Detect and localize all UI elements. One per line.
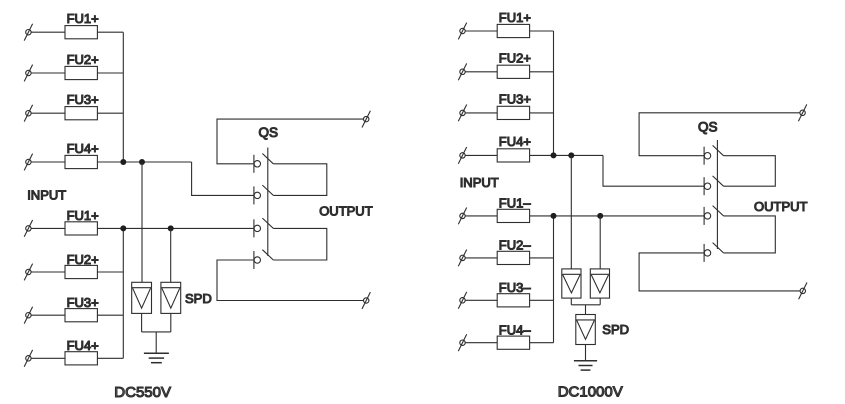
svg-text:FU3+: FU3+ xyxy=(67,92,99,107)
input terminal row 1 (right bottom group) xyxy=(458,208,466,225)
switch QS pole 4 (left) xyxy=(254,250,273,269)
junction - left SPD tap B xyxy=(168,225,174,231)
wire xyxy=(97,31,123,33)
wire - series link poles 1-2 xyxy=(724,156,776,187)
svg-text:FU3+: FU3+ xyxy=(67,295,99,310)
svg-text:FU1+: FU1+ xyxy=(67,208,99,223)
wire xyxy=(142,331,171,333)
svg-text:FU1+: FU1+ xyxy=(499,10,531,25)
output terminal - (left) xyxy=(362,292,370,309)
wire - pole4 to output- xyxy=(639,253,800,291)
wire xyxy=(465,257,497,259)
wire xyxy=(97,357,123,359)
svg-text:DC1000V: DC1000V xyxy=(558,383,623,400)
ground (right) xyxy=(574,361,597,370)
wire - right top bus xyxy=(553,31,555,155)
wire xyxy=(31,357,65,359)
wire xyxy=(585,345,587,361)
wire xyxy=(170,313,172,332)
SPD varistor 2 (right) xyxy=(590,269,609,298)
fuse FU3&#8211; (right bottom) xyxy=(497,294,529,307)
svg-text:FU4–: FU4– xyxy=(499,323,532,338)
wire xyxy=(570,298,572,305)
switch QS pole 2 (right) xyxy=(704,176,723,195)
junction - left SPD tap xyxy=(139,159,145,165)
wire xyxy=(97,112,123,114)
wire xyxy=(530,112,554,114)
fuse FU3+ (right top) xyxy=(497,106,529,119)
junction - left minus bus xyxy=(120,225,126,231)
wire - QS linkage bar xyxy=(267,148,269,257)
wire - to switch pole 2 xyxy=(603,155,704,186)
wire xyxy=(31,227,65,229)
wire xyxy=(97,72,123,74)
wire xyxy=(530,154,603,156)
wire xyxy=(97,161,191,163)
wire xyxy=(31,72,65,74)
svg-text:FU1–: FU1– xyxy=(499,196,532,211)
svg-text:OUTPUT: OUTPUT xyxy=(754,199,808,214)
svg-text:FU4+: FU4+ xyxy=(67,141,99,156)
input terminal row 1 (left top group) xyxy=(24,24,32,41)
fuse FU2&#8211; (right bottom) xyxy=(497,251,529,264)
junction - right plus bus xyxy=(551,152,557,158)
svg-text:FU2+: FU2+ xyxy=(67,52,99,67)
svg-text:FU4+: FU4+ xyxy=(67,338,99,353)
svg-text:INPUT: INPUT xyxy=(27,188,66,203)
wire xyxy=(97,271,123,273)
svg-text:FU2–: FU2– xyxy=(499,238,532,253)
SPD varistor 2 (left) xyxy=(161,282,181,313)
fuse FU4&#8211; (right bottom) xyxy=(497,336,529,349)
svg-text:FU2+: FU2+ xyxy=(67,252,99,267)
wire xyxy=(31,31,65,33)
input terminal row 4 (right bottom group) xyxy=(458,334,466,351)
input terminal row 3 (left top group) xyxy=(24,105,32,122)
wire xyxy=(530,299,554,301)
SPD varistor 1 (left) xyxy=(132,282,152,313)
input terminal row 2 (right top group) xyxy=(458,63,466,80)
output terminal + (right) xyxy=(798,104,806,121)
fuse FU2+ (right top) xyxy=(497,65,529,78)
wire xyxy=(465,342,497,344)
wire xyxy=(585,305,587,315)
input terminal row 2 (left bottom group) xyxy=(24,264,32,281)
ground (left) xyxy=(144,353,169,362)
fuse FU1&#8211; (right bottom) xyxy=(497,209,529,222)
input terminal row 3 (right top group) xyxy=(458,105,466,122)
input terminal row 1 (left bottom group) xyxy=(24,220,32,237)
wire xyxy=(599,298,601,305)
svg-text:FU2+: FU2+ xyxy=(499,51,531,66)
wire - pole1 feed from output+ xyxy=(639,113,800,156)
svg-text:DC550V: DC550V xyxy=(114,384,171,401)
output terminal + (left) xyxy=(362,111,370,128)
wire xyxy=(530,342,554,344)
svg-text:INPUT: INPUT xyxy=(460,175,499,190)
junction - right SPD tap xyxy=(568,152,574,158)
switch QS pole 1 (right) xyxy=(704,145,723,164)
wire - series link poles 3-4 xyxy=(724,216,776,253)
wire xyxy=(465,299,497,301)
SPD varistor 1 (right) xyxy=(562,269,581,298)
wire xyxy=(530,30,554,32)
fuse FU3+ (left top) xyxy=(65,107,97,120)
svg-text:QS: QS xyxy=(698,120,718,135)
wire xyxy=(97,314,123,316)
wire xyxy=(141,313,143,332)
input terminal row 3 (right bottom group) xyxy=(458,292,466,309)
switch QS pole 3 (left) xyxy=(254,218,273,237)
wire xyxy=(31,112,65,114)
output terminal - (right) xyxy=(799,283,807,300)
input terminal row 2 (right bottom group) xyxy=(458,250,466,267)
wire xyxy=(530,215,705,217)
input terminal row 4 (left bottom group) xyxy=(24,350,32,367)
wire xyxy=(465,215,497,217)
svg-text:SPD: SPD xyxy=(602,322,629,337)
input terminal row 1 (right top group) xyxy=(458,23,466,40)
wire - to switch pole 2 xyxy=(192,162,254,195)
wire - series link poles 1-2 xyxy=(273,164,327,196)
fuse FU4+ (left bottom) xyxy=(65,352,97,365)
wire - pole4 to output- xyxy=(217,260,363,301)
wire xyxy=(465,30,497,32)
switch QS pole 3 (right) xyxy=(704,206,723,225)
wire - left SPD column A xyxy=(141,162,143,282)
wire - right bottom bus xyxy=(553,216,555,343)
svg-text:FU1+: FU1+ xyxy=(67,11,99,26)
fuse FU4+ (right top) xyxy=(497,149,529,162)
fuse FU3+ (left bottom) xyxy=(65,309,97,322)
fuse FU1+ (left top) xyxy=(65,26,97,39)
wire xyxy=(155,332,157,353)
svg-text:SPD: SPD xyxy=(185,291,212,306)
wire xyxy=(530,257,554,259)
wire xyxy=(31,161,65,163)
wire - left bottom bus xyxy=(122,228,124,358)
switch QS pole 4 (right) xyxy=(704,243,723,262)
fuse FU2+ (left bottom) xyxy=(65,265,97,278)
wire xyxy=(31,314,65,316)
svg-text:FU3–: FU3– xyxy=(499,280,532,295)
wire - right SPD column B xyxy=(599,216,601,269)
wire - left top bus xyxy=(122,32,124,162)
wire xyxy=(465,112,497,114)
input terminal row 4 (left top group) xyxy=(24,154,32,171)
wire xyxy=(530,71,554,73)
wire - QS linkage bar xyxy=(716,140,718,249)
wire xyxy=(571,304,600,306)
svg-text:FU4+: FU4+ xyxy=(499,134,531,149)
input terminal row 2 (left top group) xyxy=(24,65,32,82)
switch QS pole 1 (left) xyxy=(254,154,273,173)
junction - right minus bus xyxy=(551,213,557,219)
wire - right SPD column A xyxy=(570,155,572,269)
junction - right SPD tap B xyxy=(597,213,603,219)
fuse FU1+ (right top) xyxy=(497,24,529,37)
wire xyxy=(31,271,65,273)
junction - left plus bus xyxy=(120,159,126,165)
wire - series link poles 3-4 xyxy=(273,228,327,260)
wire - left SPD column B xyxy=(170,228,172,282)
wire xyxy=(465,71,497,73)
fuse FU1+ (left bottom) xyxy=(65,222,97,235)
fuse FU2+ (left top) xyxy=(65,66,97,79)
input terminal row 4 (right top group) xyxy=(458,147,466,164)
switch QS pole 2 (left) xyxy=(254,185,273,204)
svg-text:OUTPUT: OUTPUT xyxy=(319,204,373,219)
wire - pole1 feed from output+ xyxy=(217,119,363,164)
wire xyxy=(97,227,254,229)
input terminal row 3 (left bottom group) xyxy=(24,307,32,324)
wire xyxy=(465,154,497,156)
SPD varistor 3 (right) xyxy=(576,315,596,345)
svg-text:FU3+: FU3+ xyxy=(499,92,531,107)
svg-text:QS: QS xyxy=(259,125,279,140)
fuse FU4+ (left top) xyxy=(65,155,97,168)
